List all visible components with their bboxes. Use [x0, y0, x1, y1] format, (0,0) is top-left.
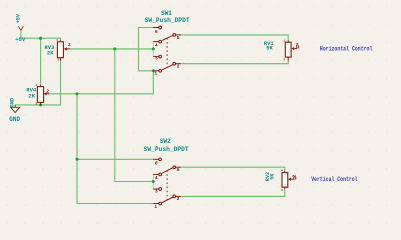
- wire GND rail: [15, 104, 60, 106]
- junction SW1 pin1: [152, 69, 155, 72]
- wire SW1 pin6 feed (left elbow): [139, 28, 154, 71]
- wire SW2 pin5 to RV2 pin1: [181, 167, 285, 171]
- svg-text:SW2: SW2: [160, 138, 171, 145]
- wire SW2 pin2 to RV2 pin3: [181, 189, 285, 196]
- pin numbers SW2: [154, 160, 179, 210]
- switch SW1: [153, 26, 181, 72]
- junction RV3 wiper bus: [113, 47, 116, 50]
- potentiometer RV3: [44, 39, 71, 62]
- wire +5V branch down to RV4 pin1: [40, 38, 42, 85]
- wire SW1 pin2 to RV1 pin3: [181, 61, 288, 64]
- svg-text:SW_Push_DPDT: SW_Push_DPDT: [145, 17, 190, 24]
- ground symbol GND: [11, 105, 20, 113]
- svg-text:Horizontal Control: Horizontal Control: [320, 46, 373, 53]
- svg-text:+5V: +5V: [15, 36, 26, 43]
- svg-text:5K: 5K: [266, 45, 273, 52]
- svg-text:2: 2: [177, 63, 180, 69]
- svg-text:2K: 2K: [47, 50, 54, 57]
- svg-text:1: 1: [283, 39, 285, 42]
- potentiometer RV4: [26, 84, 49, 106]
- svg-text:2: 2: [68, 42, 71, 48]
- svg-text:3: 3: [57, 59, 59, 62]
- wire +5V vertical drop: [20, 31, 22, 39]
- svg-text:3: 3: [283, 58, 285, 61]
- svg-text:3: 3: [155, 56, 158, 62]
- svg-text:+5V: +5V: [16, 13, 22, 23]
- potentiometer RV2: [265, 169, 298, 191]
- junction GND/RV4 pin3: [39, 103, 42, 106]
- wire +5V rail to RV3 top: [21, 38, 61, 40]
- svg-text:5K: 5K: [270, 173, 276, 180]
- svg-text:3: 3: [155, 188, 158, 194]
- svg-text:SW1: SW1: [161, 10, 172, 17]
- wire SW2 tie pins 4-3: [152, 174, 154, 189]
- svg-text:6: 6: [155, 160, 158, 166]
- wire RV4-wiper bus down to SW2: [77, 94, 153, 204]
- svg-text:1: 1: [56, 39, 58, 42]
- svg-text:2K: 2K: [28, 93, 35, 100]
- svg-text:2: 2: [46, 89, 49, 95]
- svg-text:2: 2: [296, 42, 299, 48]
- svg-text:5: 5: [177, 167, 180, 173]
- potentiometer RV1: [264, 39, 299, 61]
- junction RV4 wiper: [75, 92, 78, 95]
- svg-text:4: 4: [155, 175, 158, 181]
- pin numbers SW1: [154, 29, 179, 77]
- svg-text:4: 4: [155, 42, 158, 48]
- svg-text:1: 1: [281, 169, 284, 171]
- wire SW1 tie pins 4-3: [152, 42, 154, 57]
- svg-text:Vertical Control: Vertical Control: [311, 176, 358, 183]
- svg-text:3: 3: [281, 189, 284, 191]
- wire vertical bus RV3-wiper net down to SW2: [115, 49, 154, 182]
- svg-text:SW_Push_DPDT: SW_Push_DPDT: [144, 146, 189, 153]
- wire SW1 pin5 to RV1 pin1: [181, 35, 288, 40]
- svg-text:2: 2: [177, 196, 180, 202]
- junction SW2 pins4-3: [152, 180, 155, 183]
- svg-text:1: 1: [154, 70, 157, 76]
- wire RV3 wiper to SW1 pins 4/3: [70, 48, 153, 50]
- svg-text:GND: GND: [9, 98, 15, 107]
- svg-text:5: 5: [177, 35, 180, 41]
- wire RV3 pin3 down to GND rail: [60, 61, 62, 105]
- svg-text:6: 6: [155, 29, 158, 35]
- wire SW2 pin6 feed: [77, 158, 153, 160]
- junction +5V/RV4: [39, 37, 42, 40]
- junction SW1 pins4-3: [152, 47, 155, 50]
- switch SW2: [153, 158, 181, 205]
- svg-text:2: 2: [292, 175, 298, 178]
- power symbol +5V: [18, 26, 23, 30]
- wire SW1 pin1 stub down to RV4 wiper wire: [152, 71, 154, 94]
- svg-text:1: 1: [154, 204, 157, 210]
- wire RV4 wiper to SW1 pin1 node: [49, 93, 153, 95]
- svg-text:3: 3: [35, 103, 37, 106]
- svg-text:GND: GND: [9, 116, 20, 123]
- junction SW2 pin6 tap: [75, 158, 78, 161]
